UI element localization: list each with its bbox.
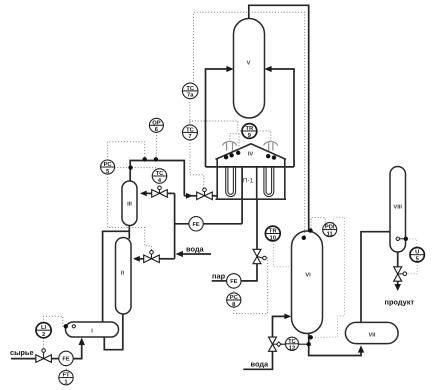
- svg-text:пар: пар: [212, 272, 226, 281]
- svg-text:10: 10: [270, 234, 276, 241]
- svg-text:PC: PC: [230, 294, 239, 301]
- svg-text:IV: IV: [248, 151, 254, 157]
- svg-text:сырье: сырье: [10, 348, 34, 357]
- svg-text:11: 11: [327, 231, 334, 237]
- svg-text:PC: PC: [104, 161, 113, 168]
- svg-text:VI: VI: [305, 272, 311, 278]
- svg-text:U: U: [415, 250, 419, 256]
- svg-text:FE: FE: [62, 357, 69, 363]
- svg-text:PDI: PDI: [325, 225, 335, 231]
- svg-text:TR: TR: [269, 229, 278, 235]
- svg-text:вода: вода: [251, 360, 270, 369]
- svg-text:TC: TC: [186, 85, 195, 92]
- svg-text:вода: вода: [186, 245, 205, 254]
- svg-text:12: 12: [289, 345, 295, 352]
- svg-text:TC: TC: [186, 126, 195, 133]
- svg-text:П-1: П-1: [243, 178, 254, 185]
- svg-text:TR: TR: [246, 126, 255, 132]
- svg-text:LI: LI: [41, 325, 47, 331]
- svg-text:II: II: [121, 270, 125, 276]
- svg-text:FE: FE: [193, 222, 200, 228]
- svg-text:III: III: [127, 201, 132, 207]
- svg-text:VII: VII: [369, 332, 376, 338]
- svg-text:2: 2: [42, 331, 45, 338]
- svg-text:TC: TC: [288, 338, 297, 345]
- svg-text:FT: FT: [62, 373, 70, 379]
- svg-text:VIII: VIII: [393, 204, 402, 210]
- svg-text:FE: FE: [230, 279, 237, 285]
- svg-text:7a: 7a: [187, 93, 194, 99]
- svg-text:V: V: [247, 60, 251, 66]
- svg-text:7: 7: [188, 134, 191, 140]
- svg-text:TC: TC: [156, 170, 165, 177]
- svg-text:OP: OP: [152, 119, 161, 126]
- svg-text:продукт: продукт: [385, 298, 415, 307]
